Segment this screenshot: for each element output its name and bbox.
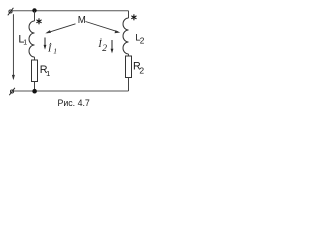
current arrow I2: [111, 40, 114, 53]
wire bottom horizontal: [14, 90, 129, 92]
svg-text:İ: İ: [47, 43, 52, 55]
terminal bottom-left: [9, 88, 15, 95]
wire R2 to bottom: [128, 78, 130, 92]
inductor L1 coil: [29, 21, 34, 57]
terminal top-left: [8, 8, 14, 16]
wire left branch top: [34, 11, 36, 21]
svg-text:1: 1: [23, 39, 27, 46]
resistor R2: [126, 56, 132, 78]
node top junction: [32, 8, 36, 12]
svg-text:Рис. 4.7: Рис. 4.7: [58, 98, 90, 108]
dot mark asterisk L1: [36, 18, 41, 24]
wire L1 to R1: [34, 57, 36, 60]
label R2: [133, 61, 144, 76]
node bottom junction: [32, 89, 37, 94]
svg-text:2: 2: [140, 35, 145, 45]
mutual arrow to L1: [45, 24, 75, 34]
voltage arrow (left, downward): [12, 14, 15, 80]
dot mark asterisk L2: [131, 14, 136, 20]
resistor R1: [32, 60, 38, 82]
current arrow I1: [44, 38, 47, 50]
mutual arrow to L2: [86, 22, 121, 34]
svg-text:2: 2: [139, 65, 144, 75]
svg-text:2: 2: [102, 44, 107, 54]
wire top horizontal: [12, 10, 129, 12]
wire L2 to R2: [128, 54, 130, 56]
svg-text:1: 1: [53, 47, 57, 56]
label I2: [97, 38, 107, 54]
inductor L2 coil: [123, 18, 128, 54]
label L2: [135, 33, 145, 46]
wire right branch top: [128, 11, 130, 18]
label R1: [40, 64, 50, 78]
label L1: [18, 33, 27, 46]
svg-text:1: 1: [46, 69, 50, 78]
svg-text:M: M: [78, 15, 86, 26]
label I1: [47, 43, 57, 56]
wire R1 to bottom: [34, 82, 36, 92]
